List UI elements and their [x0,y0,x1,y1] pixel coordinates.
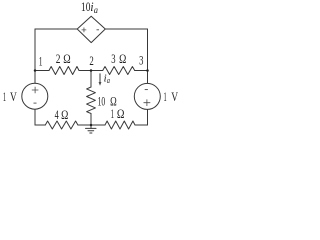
wire R1 to R2 through node 2 [79,70,103,72]
minus inside diamond [97,29,100,31]
resistor R2 3ohm [103,67,135,75]
svg-text:Ω: Ω [119,52,126,66]
wire node3 down to V2 [147,71,149,84]
resistor R1 2ohm [49,67,79,75]
svg-text:10: 10 [98,95,106,109]
svg-text:1: 1 [39,55,43,69]
svg-text:1: 1 [164,89,167,104]
wire node1 down to V1 [34,71,36,84]
wire top-right [105,28,147,30]
junction ground dot [90,124,93,127]
svg-text:2: 2 [89,54,93,68]
plus inside left source [32,87,39,94]
junction node 3 dot [146,69,149,72]
ground bar 2 [88,130,94,132]
current arrow ia [99,74,101,83]
svg-text:a: a [107,75,110,85]
plus inside right source [144,99,151,106]
svg-text:3: 3 [111,52,115,66]
voltage source V1 1V left [22,83,48,109]
svg-text:3: 3 [139,54,143,68]
wire V1 to bottom [34,109,36,125]
minus inside right source [145,89,148,91]
ground bar 3 [90,132,92,134]
svg-text:1: 1 [3,89,6,104]
current arrow head [99,82,102,86]
svg-text:10: 10 [81,0,90,14]
svg-text:V: V [171,89,178,104]
svg-text:2: 2 [56,52,61,66]
wire R5 to ground node [90,114,92,126]
wire R4 to right [135,124,148,126]
wire V2 to bottom [147,110,149,126]
minus inside left source [34,102,37,104]
wire node2 down [90,71,92,88]
svg-text:Ω: Ω [61,108,68,122]
plus inside diamond [82,28,87,33]
junction node 1 dot [34,69,37,72]
wire right rail [147,29,149,71]
svg-text:Ω: Ω [63,52,70,66]
svg-text:a: a [94,5,99,15]
resistor R5 10ohm vertical [87,87,96,114]
wire node1 to R 2ohm [35,70,49,72]
resistor R3 4ohm [45,121,78,129]
wire left rail [34,29,36,71]
wire R2 to node 3 [135,70,148,72]
dependent source U1 diamond 10ia [77,16,105,42]
resistor R4 1ohm [105,121,135,129]
ground bar 1 [86,127,97,129]
voltage source V2 1V right [134,83,160,109]
wire bottom-left [35,124,45,126]
junction node 2 dot [90,69,93,72]
svg-text:Ω: Ω [117,107,125,121]
ground stub [90,125,92,128]
wire R3 to ground node [78,124,105,126]
wire top-left [35,28,77,30]
svg-text:V: V [10,89,17,104]
svg-text:4: 4 [55,108,60,122]
svg-text:1: 1 [111,107,114,121]
